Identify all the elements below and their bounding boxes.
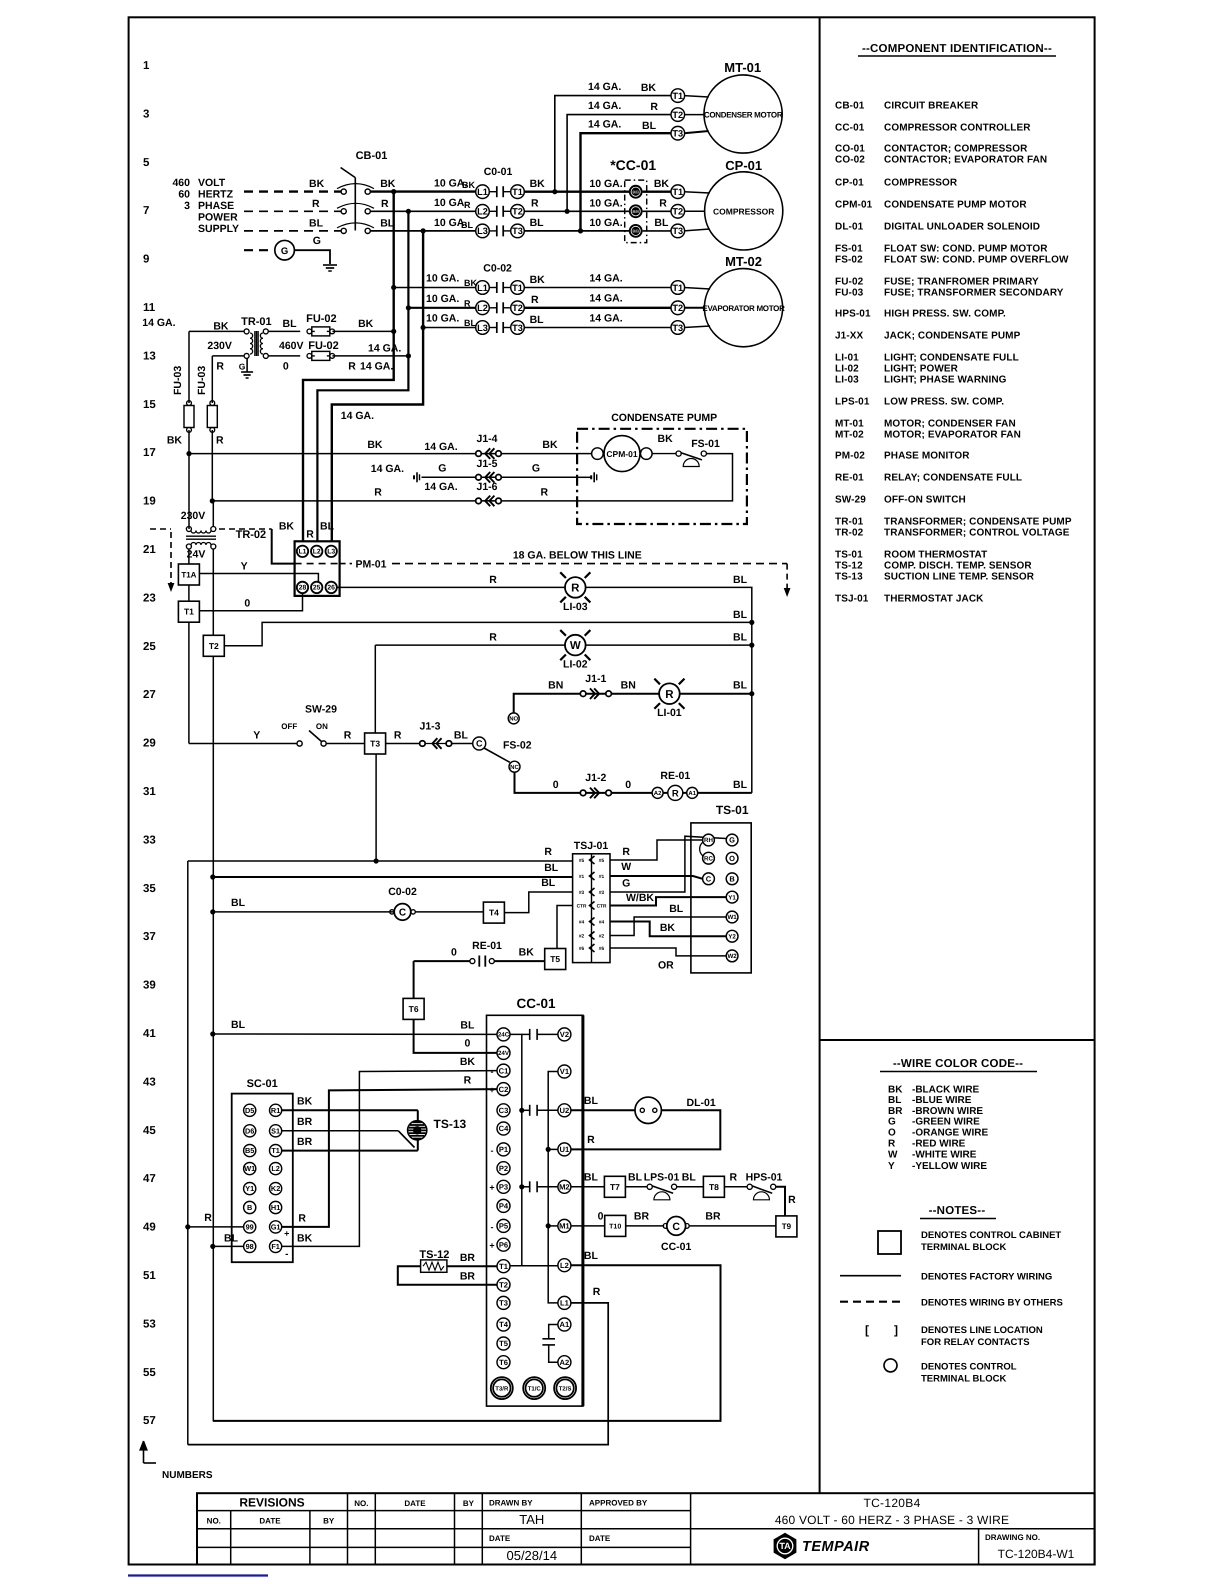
wire: R line 49 to SC-01 99 — [185, 1224, 190, 1229]
terminal block T1 — [188, 585, 190, 601]
svg-text:T1: T1 — [512, 187, 523, 197]
svg-text:J1-5: J1-5 — [476, 458, 497, 470]
CC-01 bottom terminals T3/R T1/C T2/S — [491, 1377, 513, 1399]
svg-text:TS-01: TS-01 — [835, 550, 863, 561]
svg-text:#3: #3 — [599, 890, 605, 896]
high pressure switch HPS-01 — [724, 1186, 747, 1188]
svg-text:C: C — [476, 739, 483, 749]
svg-text:T1: T1 — [184, 607, 194, 617]
svg-text:FS-01: FS-01 — [691, 438, 720, 450]
svg-text:10 GA.: 10 GA. — [426, 273, 459, 285]
svg-text:BR: BR — [297, 1136, 313, 1148]
wire: SC-01 F1 to CC-01 C1 — [282, 1071, 497, 1247]
svg-text:P3: P3 — [499, 1183, 508, 1192]
svg-text:R: R — [489, 574, 497, 586]
svg-text:REVISIONS: REVISIONS — [239, 1496, 304, 1510]
svg-text:BL: BL — [283, 318, 298, 330]
svg-text:PHASE: PHASE — [198, 200, 234, 212]
svg-text:C3: C3 — [499, 1106, 509, 1115]
svg-text:-RED WIRE: -RED WIRE — [912, 1139, 966, 1150]
wire: feeder to C0-02 L2 — [408, 307, 476, 309]
svg-text:D6: D6 — [245, 1126, 254, 1135]
wire: CC-01 to compressor T3 — [643, 230, 672, 232]
svg-text:T3: T3 — [672, 226, 683, 236]
svg-text:LI-02: LI-02 — [835, 364, 859, 375]
terminal block T3 — [365, 733, 386, 754]
svg-text:CPM-01: CPM-01 — [606, 449, 637, 459]
junction dots on phase feeders — [391, 189, 396, 194]
svg-text:BL: BL — [733, 632, 748, 644]
svg-text:L3: L3 — [327, 549, 335, 556]
svg-text:T1: T1 — [499, 1262, 509, 1271]
svg-text:CC-01: CC-01 — [661, 1241, 692, 1253]
svg-text:R: R — [298, 1213, 306, 1225]
svg-text:MT-02: MT-02 — [725, 254, 762, 269]
svg-text:230V: 230V — [207, 340, 232, 352]
svg-text:37: 37 — [143, 931, 156, 943]
wire: line 18 G to condensate pump — [413, 475, 415, 479]
svg-text:BR: BR — [888, 1106, 903, 1117]
svg-text:HIGH PRESS. SW. COMP.: HIGH PRESS. SW. COMP. — [884, 309, 1006, 320]
svg-text:5: 5 — [143, 157, 150, 169]
svg-text:FU-02: FU-02 — [835, 277, 864, 288]
svg-text:11: 11 — [143, 302, 156, 314]
svg-text:T1A: T1A — [181, 570, 196, 579]
svg-text:OFF-ON SWITCH: OFF-ON SWITCH — [884, 495, 966, 506]
wire: C0-02 T1 to MT-02 T1 — [524, 287, 672, 289]
svg-text:H1: H1 — [271, 1203, 280, 1212]
light LI-01 condensate full — [659, 683, 680, 704]
svg-text:BL: BL — [654, 217, 669, 229]
svg-text:35: 35 — [143, 883, 156, 895]
svg-text:BR: BR — [705, 1211, 721, 1223]
wire: R feeder down to PM-01 L2 — [317, 211, 408, 541]
svg-text:Y1: Y1 — [245, 1184, 254, 1193]
svg-text:#1: #1 — [579, 874, 585, 880]
svg-text:R: R — [659, 198, 667, 210]
wire: T6 to CC-01 24V — [414, 1019, 497, 1053]
svg-text:A2: A2 — [560, 1358, 570, 1367]
wire: L2 BL return loop line 57 — [213, 1265, 721, 1421]
svg-text:NC: NC — [510, 764, 519, 771]
svg-text:P4: P4 — [499, 1202, 509, 1211]
svg-text:R: R — [622, 846, 630, 858]
svg-text:C: C — [706, 875, 712, 884]
svg-text:R: R — [394, 730, 402, 742]
svg-text:47: 47 — [143, 1173, 156, 1185]
wire: line 19 R to condensate pump — [212, 500, 577, 502]
svg-text:G: G — [622, 878, 630, 890]
svg-text:TC-120B4: TC-120B4 — [863, 1496, 920, 1510]
svg-text:FOR RELAY CONTACTS: FOR RELAY CONTACTS — [921, 1337, 1030, 1348]
svg-text:PM-01: PM-01 — [356, 559, 387, 571]
svg-text:FU-03: FU-03 — [172, 366, 184, 395]
compressor CP-01 terminals — [671, 185, 685, 199]
svg-text:T1: T1 — [672, 91, 683, 101]
svg-text:L3: L3 — [477, 323, 488, 333]
svg-text:BL: BL — [461, 220, 473, 230]
svg-text:RH: RH — [704, 837, 713, 844]
svg-text:27: 27 — [143, 689, 156, 701]
digital unloader solenoid DL-01 — [571, 1109, 635, 1111]
dashed PM-01 / 18GA divider line — [340, 563, 352, 565]
svg-text:#1: #1 — [599, 874, 605, 880]
svg-text:BK: BK — [460, 1056, 476, 1068]
svg-text:-BROWN WIRE: -BROWN WIRE — [912, 1106, 983, 1117]
svg-text:CC-01: CC-01 — [835, 123, 865, 134]
svg-text:R: R — [204, 1212, 212, 1224]
svg-text:Y: Y — [253, 730, 260, 742]
svg-text:-: - — [491, 1067, 494, 1077]
svg-text:FLOAT SW: COND. PUMP OVERFLOW: FLOAT SW: COND. PUMP OVERFLOW — [884, 255, 1069, 266]
wire: T4 to TSJ #3 — [504, 892, 572, 913]
svg-text:10 GA.: 10 GA. — [426, 293, 459, 305]
svg-text:BK: BK — [358, 318, 374, 330]
svg-text:C2: C2 — [499, 1085, 509, 1094]
svg-text:R: R — [464, 1075, 472, 1087]
svg-text:T8: T8 — [709, 1182, 719, 1192]
svg-text:RE-01: RE-01 — [835, 473, 864, 484]
svg-text:+: + — [489, 1241, 494, 1251]
svg-text:MT-02: MT-02 — [835, 430, 864, 441]
svg-text:W1: W1 — [727, 914, 737, 921]
svg-text:23: 23 — [143, 592, 156, 604]
svg-text:24V: 24V — [498, 1050, 510, 1057]
svg-text:R: R — [348, 361, 356, 373]
svg-text:POWER: POWER — [198, 212, 238, 224]
note: factory wiring symbol — [840, 1275, 901, 1277]
svg-text:ROOM THERMOSTAT: ROOM THERMOSTAT — [884, 550, 987, 561]
wire: BL line 35 to TSJ #1 — [210, 874, 215, 879]
svg-text:B: B — [247, 1203, 252, 1212]
svg-text:BK: BK — [367, 439, 383, 451]
svg-text:BR: BR — [460, 1252, 476, 1264]
wire: incoming R phase (dashed) — [244, 210, 341, 212]
svg-text:T6: T6 — [499, 1358, 508, 1367]
svg-text:C0-02: C0-02 — [388, 886, 417, 898]
svg-text:BK: BK — [542, 439, 558, 451]
svg-text:R: R — [464, 299, 471, 309]
svg-text:13: 13 — [143, 350, 156, 362]
svg-text:BL: BL — [584, 1250, 599, 1262]
svg-text:G: G — [729, 836, 735, 845]
svg-text:R: R — [571, 583, 580, 595]
wire: M1 to T10 — [571, 1225, 605, 1227]
svg-text:+: + — [489, 1183, 494, 1193]
svg-text:J1-3: J1-3 — [419, 721, 440, 733]
wire: L1 R return loop — [188, 1303, 608, 1445]
svg-text:43: 43 — [143, 1076, 156, 1088]
svg-text:CONDENSER MOTOR: CONDENSER MOTOR — [704, 110, 783, 119]
wire: FS-01 return loop — [577, 454, 732, 501]
svg-text:TSJ-01: TSJ-01 — [835, 594, 869, 605]
svg-text:T3/R: T3/R — [495, 1385, 509, 1392]
right panel divider — [819, 17, 821, 1493]
node junction line 17 BK — [186, 451, 191, 456]
wire: T3 to J1-3 — [386, 743, 420, 745]
component-id / wire-color-code divider — [820, 1039, 1095, 1041]
svg-text:14 GA.: 14 GA. — [368, 343, 401, 355]
svg-text:P5: P5 — [499, 1222, 509, 1231]
svg-text:T3: T3 — [370, 738, 380, 748]
svg-text:10 GA.: 10 GA. — [426, 313, 459, 325]
svg-text:R: R — [665, 689, 674, 701]
svg-text:W: W — [621, 861, 631, 873]
wire: C0-02 T2 to MT-02 T2 — [524, 307, 672, 309]
svg-text:B5: B5 — [245, 1146, 254, 1155]
svg-text:0: 0 — [283, 361, 289, 373]
svg-text:25: 25 — [313, 585, 321, 592]
RH-RC jumper arc — [700, 842, 703, 856]
svg-text:R: R — [312, 198, 320, 210]
wire: BL bus right vertical — [742, 587, 752, 793]
svg-text:BK: BK — [297, 1096, 313, 1108]
svg-text:B/B: B/B — [632, 209, 639, 214]
svg-text:LIGHT; POWER: LIGHT; POWER — [884, 364, 959, 375]
svg-text:RE-01: RE-01 — [660, 770, 690, 782]
wire: TSJ #2 BL to TS-01 W1 — [610, 917, 726, 936]
svg-text:OFF: OFF — [281, 722, 297, 731]
temp-air logo — [774, 1533, 797, 1559]
node junction line 19 R — [210, 498, 215, 503]
svg-text:3: 3 — [143, 108, 149, 120]
svg-text:BL: BL — [460, 1020, 475, 1032]
svg-text:W: W — [888, 1149, 898, 1160]
svg-text:FU-02: FU-02 — [306, 313, 337, 325]
svg-text:DENOTES CONTROL CABINET: DENOTES CONTROL CABINET — [921, 1230, 1061, 1241]
note: control terminal block symbol — [884, 1359, 897, 1372]
svg-text:R: R — [216, 435, 224, 447]
svg-text:L2: L2 — [271, 1164, 280, 1173]
svg-text:#5: #5 — [599, 858, 605, 864]
terminal block T1A — [178, 564, 199, 585]
svg-text:#2: #2 — [599, 934, 605, 940]
wire: TR-02 to PM-01 dashed link — [219, 528, 272, 530]
svg-text:14 GA.: 14 GA. — [588, 81, 621, 93]
svg-text:BK: BK — [464, 278, 477, 288]
svg-text:BK: BK — [660, 922, 676, 934]
svg-text:W2: W2 — [727, 953, 737, 960]
wire: SC-01 G1 to CC-01 C2 — [282, 1089, 497, 1227]
svg-text:R: R — [531, 294, 539, 306]
svg-text:BL: BL — [544, 862, 559, 874]
svg-text:55: 55 — [143, 1367, 156, 1379]
terminal block T5 — [545, 949, 566, 970]
svg-text:O: O — [729, 854, 735, 863]
wire: coil to T9 — [689, 1225, 776, 1227]
CC-01 capacitor chain 24C-V2/U2/M2 — [510, 1034, 522, 1265]
svg-text:#6: #6 — [599, 946, 605, 952]
svg-text:RE-01: RE-01 — [472, 940, 502, 952]
svg-text:TRANSFORMER; CONTROL VOLTAGE: TRANSFORMER; CONTROL VOLTAGE — [884, 528, 1070, 539]
svg-text:CPM-01: CPM-01 — [835, 200, 873, 211]
svg-text:98: 98 — [246, 1242, 254, 1251]
svg-text:CP-01: CP-01 — [725, 158, 762, 173]
svg-text:K2: K2 — [271, 1184, 280, 1193]
dashed 230V feed arrow (wiring by others) — [150, 528, 171, 530]
svg-text:BR: BR — [634, 1211, 650, 1223]
svg-text:CTR: CTR — [597, 904, 607, 910]
svg-text:BL: BL — [541, 877, 556, 889]
svg-text:MT-01: MT-01 — [724, 60, 761, 75]
wire: M2 to T7 — [571, 1186, 605, 1188]
svg-text:HPS-01: HPS-01 — [746, 1172, 783, 1184]
svg-text:49: 49 — [143, 1222, 156, 1234]
wire: feeder to C0-02 L3 — [423, 327, 476, 329]
svg-text:DENOTES FACTORY WIRING: DENOTES FACTORY WIRING — [921, 1272, 1052, 1283]
svg-text:#2: #2 — [579, 934, 585, 940]
svg-text:F1: F1 — [271, 1242, 280, 1251]
terminal block T6 — [403, 998, 424, 1019]
svg-text:BL: BL — [224, 1233, 239, 1245]
wire: R rail line 33 to TSJ #5 — [188, 860, 573, 862]
svg-text:T2: T2 — [209, 641, 219, 651]
wire: TSJ #6 OR to TS-01 W2 — [610, 948, 726, 956]
svg-text:460: 460 — [172, 177, 190, 189]
wire: BL bus drop from T2 — [212, 656, 214, 1421]
svg-text:V2: V2 — [560, 1030, 569, 1039]
svg-text:CB-01: CB-01 — [356, 150, 388, 162]
svg-text:0: 0 — [553, 779, 559, 791]
svg-text:O: O — [888, 1128, 896, 1139]
svg-text:R1: R1 — [271, 1106, 280, 1115]
svg-text:SUCTION LINE TEMP. SENSOR: SUCTION LINE TEMP. SENSOR — [884, 572, 1035, 583]
svg-text:TEMPAIR: TEMPAIR — [802, 1539, 870, 1555]
svg-text:R: R — [888, 1139, 896, 1150]
svg-text:BR: BR — [460, 1271, 476, 1283]
svg-text:DATE: DATE — [404, 1499, 426, 1508]
terminal block T4 — [483, 902, 504, 923]
wire: BL feeder down to PM-01 L3 — [332, 231, 423, 541]
svg-text:BL: BL — [733, 680, 748, 692]
svg-text:DATE: DATE — [589, 1534, 611, 1543]
light LI-02 power — [565, 635, 586, 656]
wire: R phase CB-01 to C0-01 L2 — [370, 210, 476, 212]
svg-text:BN: BN — [621, 680, 636, 692]
title block frame — [197, 1493, 1095, 1564]
svg-text:G1: G1 — [271, 1223, 281, 1232]
svg-text:T5: T5 — [550, 954, 560, 964]
svg-text:19: 19 — [143, 496, 156, 508]
svg-text:BK: BK — [519, 947, 535, 959]
svg-text:W1: W1 — [244, 1164, 255, 1173]
wire: TR-01 primary top to BK feeder via FU-02 — [189, 330, 244, 332]
svg-text:T9: T9 — [782, 1222, 792, 1231]
compressor contactor coil CC-01 — [626, 1225, 665, 1227]
svg-text:TR-02: TR-02 — [236, 529, 267, 541]
svg-text:MOTOR; EVAPORATOR FAN: MOTOR; EVAPORATOR FAN — [884, 430, 1021, 441]
svg-text:L2: L2 — [313, 549, 321, 556]
svg-text:R: R — [587, 1134, 595, 1146]
svg-text:BL: BL — [454, 730, 469, 742]
svg-text:FU-03: FU-03 — [835, 288, 864, 299]
wire: TSJ #1 W to TS-01 C — [610, 876, 703, 879]
wire: line 27 BN to LI-01 — [514, 694, 752, 713]
svg-text:R: R — [541, 487, 549, 499]
wire: C0-01 T2 R to junction — [524, 210, 636, 212]
svg-text:TS-13: TS-13 — [434, 1117, 467, 1131]
svg-text:BL: BL — [530, 314, 545, 326]
svg-text:SW-29: SW-29 — [835, 495, 866, 506]
svg-text:BL: BL — [733, 574, 748, 586]
svg-text:LIGHT; CONDENSATE FULL: LIGHT; CONDENSATE FULL — [884, 353, 1019, 364]
svg-text:DL-01: DL-01 — [835, 222, 864, 233]
wire: CO-02 coil to T4 — [415, 911, 483, 913]
svg-text:R: R — [374, 487, 382, 499]
wire: TR-02 secondary left drop — [188, 549, 190, 564]
svg-text:DATE: DATE — [259, 1517, 281, 1526]
wire: CC-01 to compressor T1 — [643, 190, 672, 192]
svg-text:BK: BK — [654, 178, 670, 190]
CC-01 A1-A2 capacitor — [549, 1325, 558, 1339]
svg-text:T5: T5 — [499, 1339, 509, 1348]
svg-text:0: 0 — [464, 1038, 470, 1050]
wire: TS-12 return to T2 — [398, 1266, 497, 1285]
wire: SW-29 to T3 — [326, 743, 364, 745]
wire: TSJ #4 BK to TS-01 Y2 — [610, 922, 726, 937]
svg-text:#4: #4 — [579, 920, 585, 926]
svg-text:G: G — [532, 463, 540, 475]
svg-text:1: 1 — [143, 60, 150, 72]
R rail left vertical — [187, 861, 189, 1445]
CC-01 V1/U1/M1/L1 chain — [548, 1072, 558, 1303]
svg-text:14 GA.: 14 GA. — [371, 463, 404, 475]
svg-text:T1: T1 — [271, 1146, 280, 1155]
svg-text:THERMOSTAT JACK: THERMOSTAT JACK — [884, 594, 984, 605]
svg-text:TS-13: TS-13 — [835, 572, 863, 583]
svg-text:DIGITAL UNLOADER SOLENOID: DIGITAL UNLOADER SOLENOID — [884, 222, 1040, 233]
svg-text:53: 53 — [143, 1318, 156, 1330]
svg-text:T1/C: T1/C — [528, 1385, 542, 1392]
pump internal G plug — [577, 476, 590, 478]
svg-text:+: + — [284, 1229, 289, 1239]
svg-text:LI-03: LI-03 — [563, 601, 588, 613]
svg-text:J1-1: J1-1 — [585, 673, 606, 685]
svg-text:T6: T6 — [409, 1004, 419, 1014]
svg-text:BL: BL — [628, 1172, 643, 1184]
svg-text:TA: TA — [779, 1541, 791, 1551]
svg-text:SC-01: SC-01 — [247, 1078, 278, 1090]
svg-text:-BLUE WIRE: -BLUE WIRE — [912, 1095, 972, 1106]
CC-01 right terminal column — [558, 1028, 571, 1041]
wire: T3 drop to R rail — [375, 754, 377, 861]
svg-text:9: 9 — [143, 254, 149, 266]
svg-text:A2: A2 — [654, 790, 662, 797]
svg-text:RELAY; CONDENSATE FULL: RELAY; CONDENSATE FULL — [884, 473, 1022, 484]
contactor coil CO-02 — [210, 909, 215, 914]
svg-text:DL-01: DL-01 — [687, 1097, 716, 1109]
svg-text:BL: BL — [231, 1019, 246, 1031]
note: wiring by others symbol — [840, 1301, 901, 1303]
svg-text:OR: OR — [658, 960, 674, 972]
svg-text:#3: #3 — [579, 890, 585, 896]
svg-text:R: R — [544, 846, 552, 858]
svg-text:FU-02: FU-02 — [308, 340, 339, 352]
terminal block T9 — [776, 1216, 797, 1237]
wire: PM-01 26 to LI-03 line 23 — [337, 586, 742, 588]
svg-text:7: 7 — [143, 205, 149, 217]
svg-text:LI-02: LI-02 — [563, 659, 588, 671]
svg-text:T4: T4 — [499, 1320, 509, 1329]
svg-text:BK: BK — [297, 1233, 313, 1245]
svg-text:460 VOLT - 60 HERZ - 3 PHA: 460 VOLT - 60 HERZ - 3 PHASE - 3 WIRE — [775, 1513, 1009, 1527]
svg-text:T3: T3 — [512, 226, 523, 236]
low pressure switch LPS-01 — [625, 1186, 647, 1188]
svg-text:TR-02: TR-02 — [835, 528, 864, 539]
svg-text:V1: V1 — [560, 1067, 570, 1076]
svg-text:C: C — [672, 1221, 680, 1233]
svg-text:R: R — [788, 1194, 796, 1206]
